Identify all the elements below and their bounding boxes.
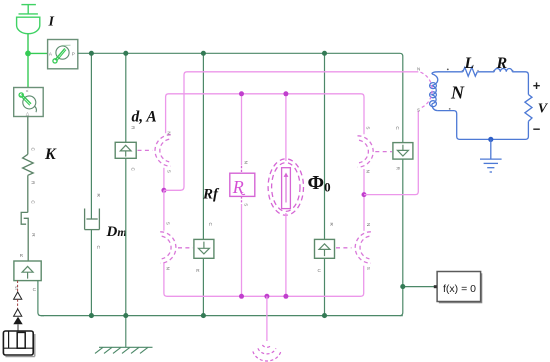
terminal marks [447, 69, 449, 71]
node magnetic reference tap [264, 294, 269, 299]
port triangle 2 (outline) [14, 309, 22, 316]
lower magnetic bus (air gap G1 to air gap G4) [166, 94, 364, 134]
node left magnetic junction [161, 188, 166, 193]
upper magnetic bus (winding N to left riser) [181, 72, 419, 191]
svg-text:Rf: Rf [202, 186, 220, 202]
wire node to sensor U1 [28, 52, 48, 54]
wire winding to L [438, 71, 463, 73]
svg-text:N: N [244, 161, 249, 164]
node on bottom bus at Rf [239, 294, 244, 299]
input arrow (filled triangle) [13, 317, 22, 325]
bottom wire V to winding [438, 111, 529, 140]
dashed link G4 to down-converter [375, 151, 392, 153]
svg-text:S: S [244, 203, 249, 206]
bottom bus wire [41, 315, 403, 317]
vertical wire x=125.8 (d,A branch) [125, 53, 127, 142]
converter block d,A (up arrow) [115, 142, 136, 158]
svg-text:N: N [166, 267, 171, 270]
svg-text:K: K [44, 146, 57, 163]
air gap G4 (dashed crescent, apex right) [358, 136, 374, 167]
svg-text:<: < [26, 88, 29, 93]
magnetic reference (dashed fan) [253, 345, 281, 361]
svg-text:N: N [366, 223, 371, 226]
node right magnetic junction [362, 192, 367, 197]
wire flux source top [285, 94, 287, 161]
winding N (coil with magnetic core) [417, 67, 438, 113]
tee wire to winding S [364, 111, 418, 195]
solver configuration block f(x)=0 [434, 272, 483, 304]
wire Rf top [241, 94, 243, 166]
mechanical ground (hatched) [95, 316, 153, 354]
svg-text:△: △ [26, 111, 30, 116]
dashed link up-converter to G3 [336, 247, 352, 249]
svg-text:I: I [48, 15, 55, 30]
wire to solver block [403, 286, 435, 288]
wire spring to hard stop [27, 175, 29, 212]
top bus wire [78, 53, 403, 142]
svg-text:L: L [464, 55, 475, 72]
force source I symbol [17, 5, 40, 34]
inductor L (zigzag) [463, 67, 478, 76]
svg-text:S: S [366, 126, 371, 129]
svg-text:f(x) = 0: f(x) = 0 [443, 283, 476, 295]
spring K [23, 154, 34, 175]
air gap G2 (dashed crescent, apex right) [160, 232, 176, 263]
hard stop (interlocked hooks) [21, 212, 28, 240]
svg-text:Dm: Dm [106, 224, 127, 240]
svg-text:S: S [366, 267, 371, 270]
node on lower bus at flux source [283, 91, 288, 96]
port triangle 1 (outline) [14, 292, 22, 299]
svg-text:S: S [417, 107, 420, 112]
svg-text:N: N [417, 67, 420, 72]
svg-text:−: − [533, 122, 541, 137]
node on bottom bus at flux source [283, 294, 288, 299]
converter block (up arrow) lower-left [14, 261, 41, 292]
wire gap G1 S to node [163, 168, 165, 191]
vertical wire x=324.5 (up-converter branch) [324, 53, 326, 239]
svg-text:+: + [533, 78, 541, 93]
wire to magnetic reference [266, 296, 268, 341]
vertical wire x=91 (damper branch) [90, 53, 92, 219]
converter block (up arrow) at x=324.5 [315, 239, 335, 258]
wire hard stop to converter block [27, 241, 29, 262]
svg-text:N: N [366, 170, 371, 173]
red dashed signal to reference [17, 281, 19, 293]
electrical node [488, 137, 493, 142]
svg-text:d, A: d, A [132, 108, 157, 125]
solver node [400, 284, 405, 289]
wire L to R [477, 71, 494, 73]
wire gap G3 N up to right junction [363, 169, 365, 231]
resistor R (bumps) [494, 69, 512, 72]
svg-text:S: S [166, 222, 171, 225]
converter block (down arrow) at x=402.8 [393, 143, 413, 160]
mechanical reference block [3, 331, 34, 357]
wire U2 to spring [27, 117, 29, 155]
wire node down to gap G2 [163, 190, 165, 230]
converter block (down arrow) at x=203 [194, 239, 214, 258]
right vertical wire x=402.8 lower part with f(x) node [400, 159, 403, 316]
air gap G3 (dashed crescent, apex left) [355, 232, 371, 263]
reluctance block Rf [230, 161, 255, 207]
source V (zigzag) [525, 95, 532, 122]
wire node down to sensor U2 [27, 53, 29, 87]
wire C of converter down to bottom bus [38, 281, 44, 316]
dashed link G2 to down-converter [178, 247, 193, 249]
node on lower bus at Rf [239, 91, 244, 96]
sensor U2 (gauge block below node) [14, 88, 44, 117]
svg-text:R: R [496, 55, 508, 72]
wire flux source bottom [285, 213, 287, 296]
wire from source to node [27, 34, 29, 53]
green junction dots top bus [89, 51, 94, 56]
node (bright) [25, 51, 31, 57]
tee wire to upper riser [164, 189, 181, 191]
dashed link d,A block to G1 [138, 149, 153, 151]
svg-text:V: V [538, 102, 549, 117]
vertical wire x=203.4 (down-converter branch) [202, 53, 204, 239]
svg-text:P: P [72, 51, 75, 56]
svg-text:N: N [166, 131, 171, 134]
bottom magnetic bus [164, 263, 364, 296]
green junction dots bottom bus [89, 313, 94, 318]
svg-text:N: N [450, 82, 465, 102]
flux source PHI0 [268, 159, 303, 215]
damper Dm [85, 209, 100, 230]
wire R to V [512, 72, 528, 95]
sensor U1 (gauge block, ports A/P) [48, 40, 78, 69]
electrical reference (ground) [480, 139, 502, 172]
red dashed between triangles [17, 299, 19, 309]
svg-text:S: S [166, 170, 171, 173]
wire Rf bottom [241, 196, 243, 203]
air gap G1 (dashed crescent, apex left) [155, 135, 171, 166]
